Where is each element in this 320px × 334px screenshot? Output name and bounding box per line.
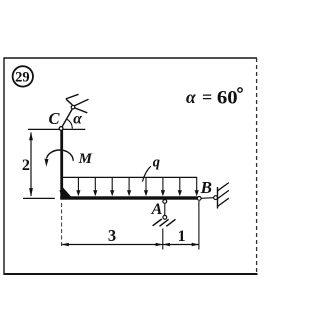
svg-text:3: 3 — [108, 226, 116, 245]
svg-text:29: 29 — [15, 69, 30, 85]
svg-text:60: 60 — [217, 88, 238, 109]
svg-text:=: = — [202, 87, 212, 107]
svg-text:2: 2 — [22, 156, 30, 174]
svg-text:1: 1 — [178, 228, 186, 245]
svg-text:A: A — [151, 201, 163, 218]
svg-text:C: C — [48, 109, 60, 128]
svg-text:α: α — [73, 111, 82, 128]
svg-text:α: α — [186, 87, 196, 107]
svg-text:q: q — [153, 155, 160, 171]
svg-text:M: M — [78, 151, 93, 167]
svg-text:B: B — [200, 178, 212, 197]
